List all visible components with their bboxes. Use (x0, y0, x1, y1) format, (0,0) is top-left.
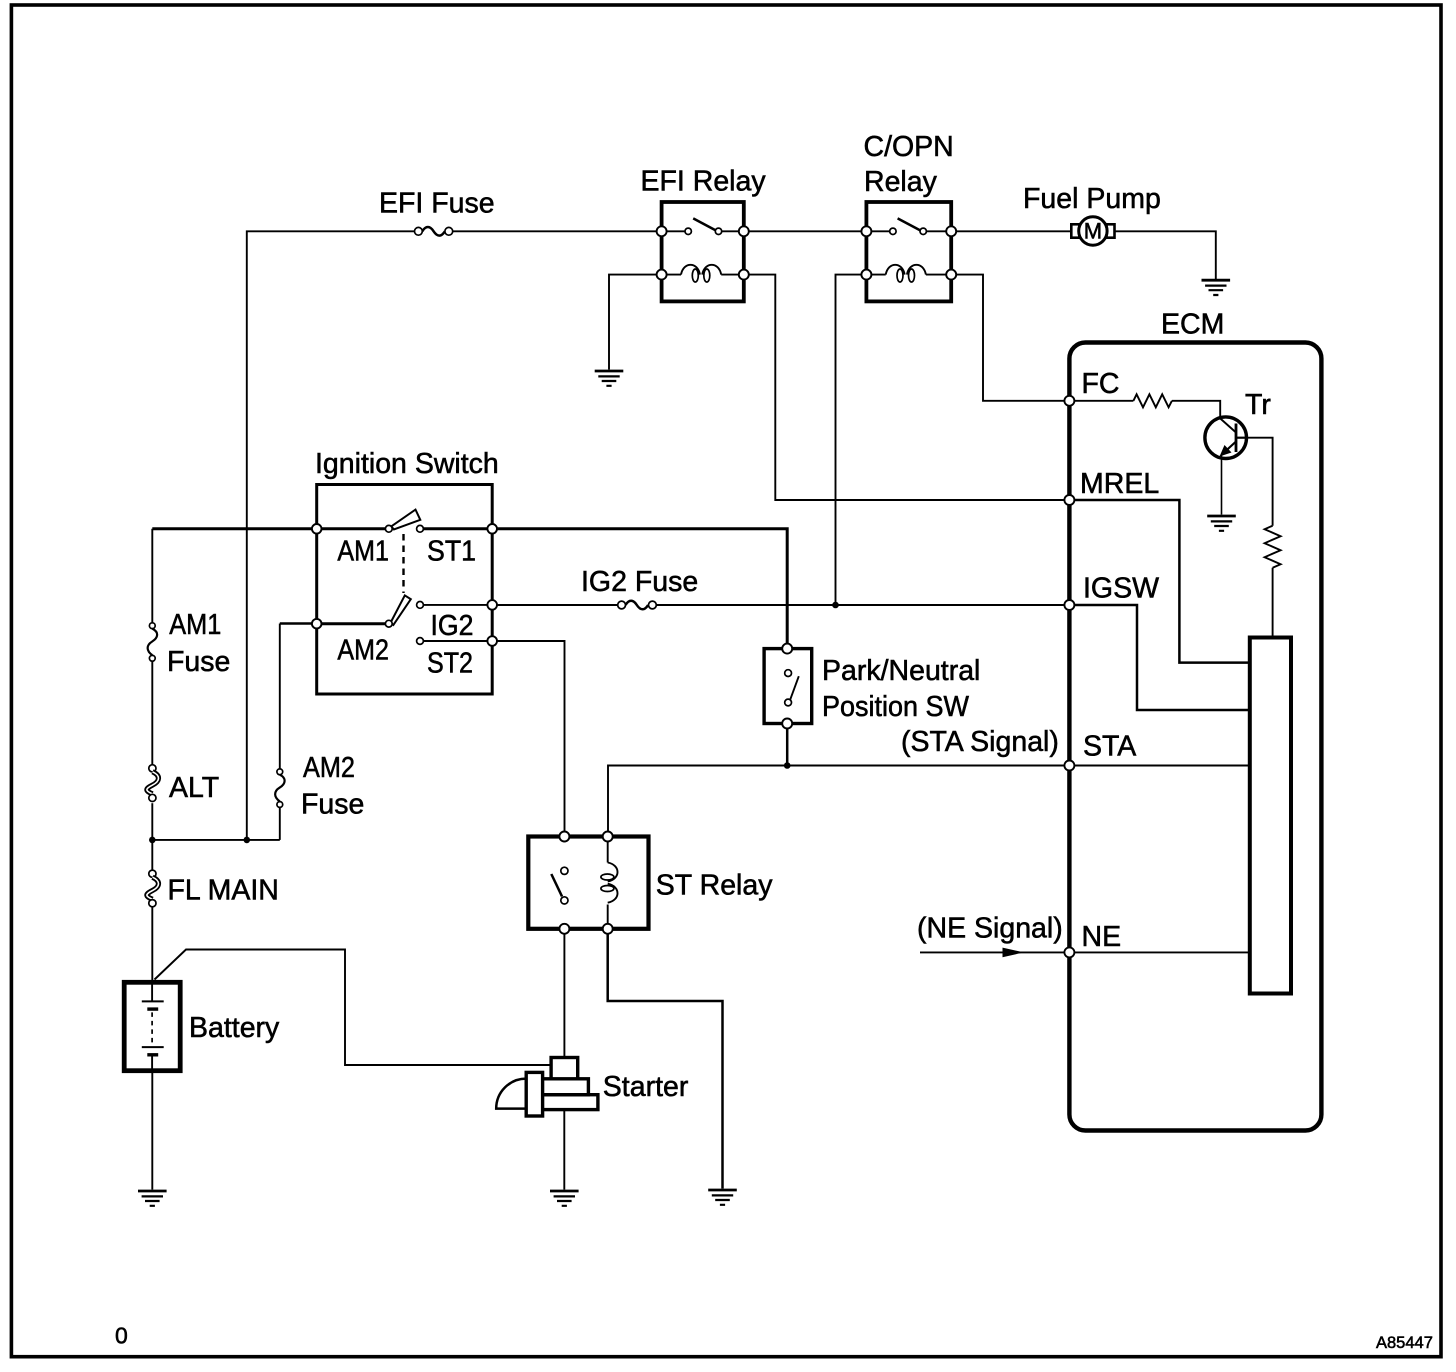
blade AM1-ST1 (391, 510, 420, 530)
wire IG2 row to IG2 fuse (492, 604, 618, 606)
svg-text:C/OPN: C/OPN (864, 131, 954, 163)
pin ST relay top-left (559, 832, 569, 842)
svg-text:A85447: A85447 (1376, 1334, 1433, 1352)
wire MREL internal (1069, 500, 1250, 663)
svg-text:Relay: Relay (864, 166, 938, 198)
switch blade EFI relay (693, 218, 716, 230)
wire EFI relay coil to ground (609, 275, 662, 370)
wire ST relay switch to starter (563, 931, 565, 1058)
svg-text:AM1: AM1 (337, 535, 389, 567)
contact ST relay bottom (561, 897, 568, 904)
wire ST relay to STA row (608, 766, 1069, 835)
contact EFI relay left (685, 228, 691, 234)
transistor emitter arrowhead (1220, 445, 1232, 457)
contact C/OPN relay right (920, 228, 926, 234)
contact AM2 (385, 620, 392, 627)
dashed link ignition switch blades (402, 534, 404, 593)
contact ST1 (417, 525, 424, 532)
contact ST2 (417, 638, 424, 645)
wire junction row (152, 839, 279, 841)
svg-text:Park/Neutral: Park/Neutral (822, 655, 980, 687)
wire EFI relay coil to MREL (744, 275, 1069, 500)
pin ST2 (487, 636, 497, 646)
wire ST2 row to ST relay (492, 641, 564, 835)
connector bar inside ECM (1250, 638, 1291, 994)
battery internal lead bottom (151, 1056, 153, 1069)
contact AM1 (385, 525, 392, 532)
svg-text:EFI Relay: EFI Relay (641, 166, 767, 198)
switch SW1 Ignition Switch (312, 485, 497, 695)
pin EFI relay bottom-left (657, 270, 667, 280)
svg-text:Position SW: Position SW (822, 691, 969, 723)
blade AM2-IG2 (391, 595, 411, 625)
transistor base bar (1235, 424, 1238, 453)
svg-text:Tr: Tr (1245, 389, 1271, 421)
junction IG2/C-OPN node (832, 602, 839, 609)
wire IGSW internal (1069, 605, 1250, 710)
arrowhead NE signal (1003, 948, 1025, 958)
wire AM1 column upper (151, 529, 153, 623)
svg-text:Fuse: Fuse (167, 646, 230, 678)
wire NE internal (1069, 951, 1250, 953)
svg-text:Starter: Starter (603, 1071, 689, 1103)
svg-text:AM2: AM2 (337, 634, 389, 666)
wire STA internal (1069, 765, 1250, 767)
wire emitter to ground (1221, 455, 1223, 515)
wire AM1 row (317, 527, 493, 530)
wire AM1 fuse to ALT (151, 661, 153, 765)
svg-text:NE: NE (1082, 921, 1122, 953)
pin ST relay top-right (603, 832, 613, 842)
transistor emitter lead (1224, 442, 1236, 453)
wire collector to resistor R2 (1247, 438, 1273, 526)
transistor collector lead (1236, 437, 1247, 439)
starter mid slab (538, 1079, 588, 1095)
wire AM2 row (317, 622, 386, 625)
wire ST1 to Park/Neutral SW (492, 529, 787, 645)
contact ST relay top (561, 867, 568, 874)
contact IG2 (417, 602, 424, 609)
pin AM2 (312, 619, 322, 629)
wire AM2 riser (279, 624, 281, 770)
wire FC to resistor (1069, 400, 1133, 402)
wire Park/Neutral SW to STA node (786, 728, 789, 766)
wire AM2 fuse to junction row (279, 807, 281, 840)
svg-text:ALT: ALT (169, 772, 219, 804)
svg-text:ST Relay: ST Relay (656, 870, 773, 902)
starter motor (496, 1058, 598, 1117)
svg-text:ECM: ECM (1161, 309, 1224, 341)
starter top block (551, 1058, 578, 1079)
wire IG2 row (423, 604, 492, 606)
wire FL MAIN to battery (151, 907, 153, 982)
battery dashed cell link (151, 1012, 153, 1044)
pin NE (1064, 947, 1074, 957)
svg-text:ST2: ST2 (427, 647, 473, 679)
resistor R2 (pull-up) (1265, 526, 1281, 568)
battery plate short top (147, 1007, 158, 1010)
fusible link FL MAIN (147, 870, 159, 907)
wire fuel pump to ground (1108, 231, 1216, 279)
relay U3 ST Relay (528, 832, 648, 934)
ground at EFI relay (595, 371, 624, 386)
pin C/OPN relay top-right (946, 226, 956, 236)
battery plate long top (142, 1000, 164, 1002)
pin ST1 (487, 524, 497, 534)
pin MREL (1064, 495, 1074, 505)
wire C/OPN relay coil to IGSW node (836, 275, 867, 605)
svg-text:EFI Fuse: EFI Fuse (379, 188, 495, 220)
svg-text:ST1: ST1 (427, 535, 476, 567)
contact park/neutral top (785, 670, 792, 677)
svg-text:FL MAIN: FL MAIN (168, 875, 279, 907)
wire resistor R2 to connector bar (1272, 568, 1274, 638)
ECM box (1069, 343, 1321, 1131)
wire C/OPN relay coil to FC (951, 275, 1069, 401)
ground at starter (550, 1191, 579, 1206)
pin STA (1064, 761, 1074, 771)
contact C/OPN relay left (890, 228, 896, 234)
svg-text:0: 0 (115, 1323, 128, 1349)
pin EFI relay bottom-right (739, 270, 749, 280)
svg-text:IGSW: IGSW (1083, 572, 1159, 604)
wire IG2 fuse to IGSW (656, 604, 1069, 606)
pin AM1 (312, 524, 322, 534)
ground at fuel pump (1202, 280, 1231, 295)
transistor Tr (1205, 417, 1247, 459)
wire junction row to FL MAIN (151, 840, 153, 871)
fuse AM1 Fuse (148, 623, 157, 661)
starter base slab (538, 1095, 598, 1110)
pin C/OPN relay bottom-left (861, 270, 871, 280)
blade ST relay (551, 874, 562, 896)
battery plate long bottom (142, 1046, 164, 1048)
pin ST relay bottom-right (603, 924, 613, 934)
wire ST relay coil to ground (608, 931, 723, 1189)
ground at transistor emitter (1207, 516, 1236, 531)
svg-text:(NE Signal): (NE Signal) (917, 912, 1063, 944)
coil C/OPN relay (866, 274, 951, 276)
relay U1 EFI Relay (657, 202, 749, 301)
svg-text:Battery: Battery (189, 1012, 280, 1044)
svg-text:MREL: MREL (1080, 468, 1159, 500)
wire starter to ground (563, 1110, 565, 1190)
svg-text:AM1: AM1 (169, 609, 221, 641)
switch blade C/OPN relay (898, 218, 921, 230)
fuse IG2 Fuse (618, 601, 657, 610)
ground at battery (138, 1191, 167, 1206)
wire ST2 row (423, 640, 492, 642)
wire C/OPN relay to fuel pump (951, 230, 1078, 232)
junction at ALT column (149, 837, 156, 844)
resistor R1 (FC) (1133, 394, 1172, 407)
pin park/neutral bottom (782, 719, 792, 729)
wire EFI relay to C/OPN relay (744, 230, 867, 232)
pin IGSW (1064, 600, 1074, 610)
battery BAT (124, 982, 180, 1070)
blade park/neutral (790, 676, 799, 700)
junction at B+ riser (244, 837, 251, 844)
svg-text:STA: STA (1083, 730, 1136, 762)
motor M fuel pump (1071, 217, 1114, 245)
pin C/OPN relay bottom-right (946, 270, 956, 280)
starter bell housing (496, 1079, 526, 1109)
svg-text:(STA Signal): (STA Signal) (901, 726, 1059, 758)
pin park/neutral top (782, 644, 792, 654)
wire B+ feed to EFI fuse (247, 231, 415, 839)
pin IG2 (487, 600, 497, 610)
transistor base lead (1220, 419, 1236, 433)
svg-text:FC: FC (1082, 368, 1120, 400)
pin C/OPN relay top-left (861, 226, 871, 236)
pin ST relay bottom-left (559, 924, 569, 934)
svg-text:Fuse: Fuse (301, 789, 364, 821)
pin EFI relay top-right (739, 226, 749, 236)
starter solenoid (526, 1072, 542, 1116)
battery internal lead top (151, 984, 153, 1001)
ground at ST relay (708, 1190, 737, 1205)
svg-text:Ignition Switch: Ignition Switch (315, 448, 499, 480)
wire EFI fuse to EFI relay (453, 230, 662, 232)
svg-text:IG2: IG2 (431, 610, 474, 642)
coil EFI relay (662, 274, 744, 276)
coil ST relay (607, 837, 609, 929)
svg-text:IG2 Fuse: IG2 Fuse (581, 566, 698, 598)
switch SW2 Park/Neutral Position SW (764, 644, 812, 729)
wire resistor to transistor base (1172, 401, 1220, 418)
pin EFI relay top-left (657, 226, 667, 236)
svg-text:M: M (1084, 219, 1102, 244)
fusible link ALT (147, 765, 159, 802)
relay U2 C/OPN Relay (861, 202, 956, 301)
svg-text:Fuel Pump: Fuel Pump (1023, 183, 1161, 215)
wire switch row EFI relay (662, 230, 744, 232)
wire switch row C/OPN relay (866, 230, 951, 232)
contact park/neutral bottom (785, 699, 792, 706)
fuse AM2 Fuse (275, 769, 284, 808)
battery plate short bottom (147, 1053, 158, 1056)
wire AM2 feed (280, 622, 317, 625)
junction STA node (784, 762, 791, 769)
wire battery to ground (151, 1071, 153, 1190)
wire AM1 feed (152, 527, 316, 530)
wire battery positive to starter (155, 950, 552, 1066)
svg-text:AM2: AM2 (303, 752, 355, 784)
fuse EFI Fuse (415, 227, 453, 236)
pin FC (1064, 396, 1074, 406)
wire NE signal with arrow (920, 951, 1069, 953)
wire ALT to junction row (151, 803, 153, 840)
contact EFI relay right (715, 228, 721, 234)
